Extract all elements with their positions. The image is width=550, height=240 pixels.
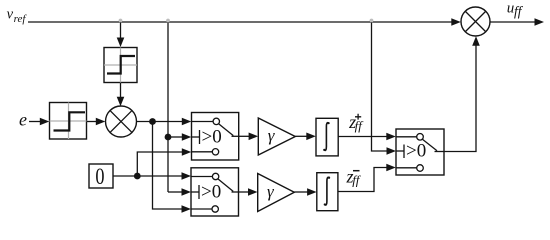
svg-text:>0: >0 [406,141,426,162]
svg-text:0: 0 [95,163,104,190]
svg-text:>0: >0 [201,181,221,202]
svg-text:>0: >0 [202,126,222,147]
svg-text:v: v [7,7,14,23]
svg-text:e: e [19,110,27,130]
svg-text:ref: ref [14,13,28,25]
